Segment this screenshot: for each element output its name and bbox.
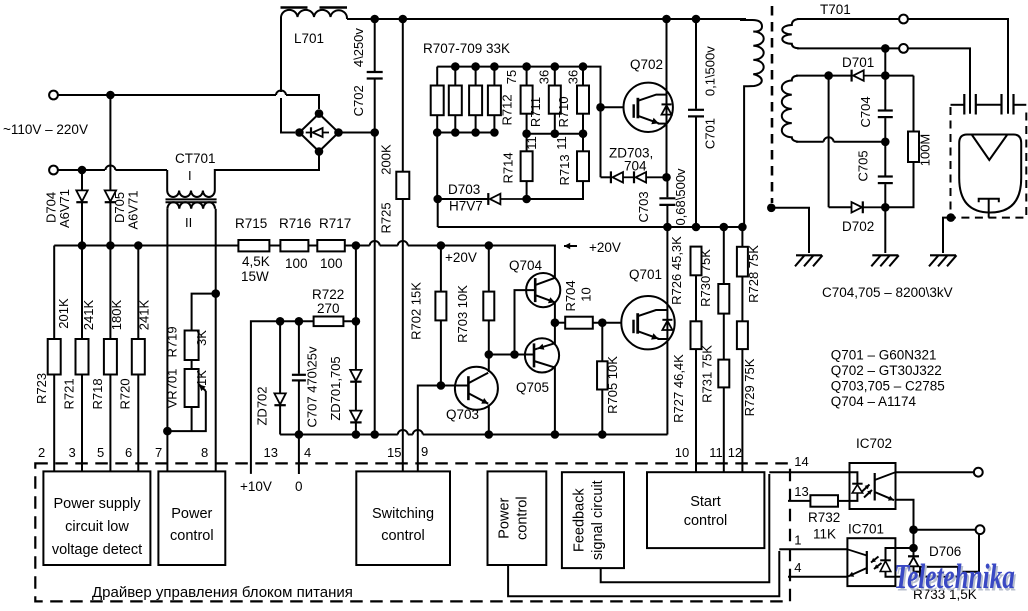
transformer CT701 secondary — [167, 202, 215, 230]
resistor R713 11 — [527, 134, 589, 199]
wire L701 left lead to bridge — [281, 98, 295, 133]
svg-text:D702: D702 — [842, 219, 874, 234]
svg-text:C701: C701 — [703, 118, 718, 149]
svg-text:Q701: Q701 — [629, 267, 662, 282]
svg-text:3K: 3K — [194, 330, 209, 346]
diode D704 — [44, 170, 88, 246]
svg-text:14: 14 — [794, 454, 808, 469]
svg-text:R725: R725 — [379, 202, 394, 233]
svg-text:Драйвер управления блоком пита: Драйвер управления блоком питания — [92, 584, 353, 601]
resistor R702 15K — [409, 246, 447, 386]
junction R702 bottom — [437, 381, 446, 390]
junction R730 top — [720, 223, 729, 232]
junction CRT ground corner — [947, 213, 956, 222]
svg-text:0,1\500v: 0,1\500v — [703, 46, 718, 96]
svg-text:R717: R717 — [319, 216, 351, 231]
wire CT701 sec right to pin 8 — [215, 209, 217, 472]
wire Q702 gate — [601, 106, 635, 108]
wire to terminal 2 — [914, 529, 976, 531]
svg-text:R712: R712 — [500, 94, 515, 125]
wire R725 to pin 15 — [402, 199, 404, 471]
svg-text:R730 75K: R730 75K — [698, 249, 713, 307]
capacitor C707 470\25v — [292, 321, 320, 434]
resistor R720 241K — [118, 246, 152, 472]
wire D702 column — [828, 76, 830, 208]
svg-text:100M: 100M — [918, 134, 933, 167]
junction R728 top — [738, 223, 747, 232]
resistor R718 180K — [90, 246, 124, 472]
capacitor C705 — [856, 142, 893, 208]
svg-text:R704: R704 — [563, 280, 578, 311]
transformer T701 core — [771, 6, 774, 203]
label Q704 type — [831, 394, 917, 409]
pin 5 — [97, 445, 104, 460]
resistor R717 100 — [317, 216, 351, 271]
svg-text:circuit low: circuit low — [65, 519, 129, 535]
resistor R711 36 — [528, 67, 561, 134]
svg-text:13: 13 — [264, 445, 278, 460]
wire pin4 line — [788, 576, 847, 578]
junction R703 bottom — [485, 350, 494, 359]
wire Q701 collector — [666, 227, 668, 310]
CRT bulb — [959, 135, 1021, 213]
svg-text:Q701 – G60N321: Q701 – G60N321 — [831, 348, 937, 363]
junction R714 bottom — [522, 195, 531, 204]
label Q702 type — [831, 363, 942, 378]
svg-text:I: I — [188, 168, 192, 183]
wire base node — [489, 354, 534, 356]
resistor R721 241K — [62, 246, 96, 472]
svg-text:Power: Power — [171, 506, 212, 522]
junction on top bus — [106, 91, 115, 100]
label R707-709 33K — [423, 41, 510, 56]
junction out node — [909, 525, 918, 534]
svg-text:10: 10 — [675, 445, 689, 460]
pin 10 — [675, 445, 689, 460]
resistor R707 — [431, 67, 444, 133]
capacitor anode cap left — [951, 94, 1027, 115]
junction C702 top — [370, 15, 379, 24]
svg-text:C705: C705 — [856, 150, 871, 181]
diode D702 — [829, 201, 886, 234]
svg-text:Q703: Q703 — [446, 407, 479, 422]
resistor R723 201K — [34, 246, 71, 472]
svg-text:R705 10K: R705 10K — [605, 356, 620, 414]
transistor Q702 IGBT — [624, 57, 673, 132]
svg-text:Feedback: Feedback — [572, 488, 588, 552]
junction D704 tap — [78, 166, 87, 175]
transistor Q703 — [446, 355, 498, 435]
junction sec1 bottom tap — [881, 44, 890, 53]
svg-text:R722: R722 — [312, 287, 344, 302]
junction bridge left — [295, 128, 304, 137]
svg-text:R702 15K: R702 15K — [409, 282, 424, 340]
ground core — [795, 255, 823, 266]
resistor R733 1,5K — [913, 534, 979, 602]
svg-text:Q702: Q702 — [630, 57, 663, 72]
wire Q704 base column — [515, 290, 535, 354]
svg-text:R719: R719 — [164, 326, 179, 357]
svg-text:VR701: VR701 — [164, 369, 179, 409]
svg-text:R716: R716 — [279, 216, 311, 231]
potentiometer VR701 1K — [164, 360, 209, 431]
diode D701 — [842, 55, 885, 82]
wire network bottom bus — [437, 132, 494, 134]
svg-text:signal circuit: signal circuit — [590, 480, 606, 560]
svg-text:0,68\500v: 0,68\500v — [673, 168, 688, 226]
wire network mid bus — [527, 133, 583, 135]
zener ZD703,704 — [601, 146, 667, 184]
junction gate node — [596, 103, 605, 112]
svg-text:A6V71: A6V71 — [57, 189, 72, 228]
svg-text:T701: T701 — [820, 2, 851, 17]
junction VR701 to pin7 line — [163, 427, 172, 436]
transistor Q705 — [516, 323, 559, 435]
capacitor C702 — [351, 19, 383, 133]
diode D703 H7V7 — [438, 182, 527, 214]
block power supply low voltage detect — [43, 471, 150, 565]
svg-text:75: 75 — [504, 70, 519, 84]
svg-text:36: 36 — [566, 70, 581, 84]
svg-text:R707-709 33K: R707-709 33K — [423, 41, 510, 56]
optocoupler IC702 — [850, 436, 896, 509]
svg-text:Power: Power — [497, 497, 513, 538]
pin 4 ic — [794, 560, 801, 575]
svg-text:7: 7 — [155, 445, 162, 460]
junction bridge right — [334, 128, 343, 137]
zener ZD702 — [255, 321, 286, 434]
svg-text:10: 10 — [578, 287, 593, 301]
transformer T701 primary — [740, 2, 851, 227]
svg-text:6: 6 — [125, 445, 132, 460]
wire pin13 line — [788, 500, 810, 502]
svg-text:IC701: IC701 — [848, 522, 884, 537]
svg-text:+20V: +20V — [445, 250, 477, 265]
wire 33K group to D703 — [436, 133, 438, 200]
resistor R729 75K — [737, 321, 757, 472]
svg-text:Q704: Q704 — [509, 258, 543, 273]
wire AC line 2 — [58, 166, 167, 171]
wire HT lead to anode — [797, 19, 1008, 114]
junction C703 bottom — [663, 223, 672, 232]
label +20V arrow — [564, 240, 621, 255]
node output terminal low — [976, 525, 985, 534]
transistor Q704 — [509, 258, 560, 323]
junction CT701 sec right tap — [211, 289, 220, 298]
junction Q702 collector top — [662, 15, 671, 24]
resistor R715 4,5K 15W — [235, 216, 270, 284]
svg-text:IC702: IC702 — [856, 436, 892, 451]
svg-text:2: 2 — [38, 445, 45, 460]
diode D706 — [908, 544, 961, 572]
svg-text:+20V: +20V — [589, 240, 621, 255]
capacitor C704 — [858, 48, 893, 141]
junction base node — [510, 350, 519, 359]
svg-text:3: 3 — [69, 445, 76, 460]
wire pin1 line — [779, 548, 847, 550]
svg-text:R715: R715 — [235, 216, 267, 231]
junction R705 bottom — [598, 430, 607, 439]
svg-text:4,5K: 4,5K — [242, 254, 270, 269]
node output terminal top — [974, 468, 983, 477]
bridge rectifier — [299, 114, 338, 152]
junction C707 top — [295, 317, 304, 326]
wire bridge return column — [374, 133, 376, 435]
pin 3 — [69, 445, 76, 460]
svg-text:241K: 241K — [137, 299, 152, 330]
wire +10V node — [251, 321, 356, 474]
junction D702 cathode — [881, 203, 890, 212]
ground C705 — [871, 255, 899, 266]
junction R718 top — [106, 241, 115, 250]
junction R725 top — [399, 15, 408, 24]
resistor R728 75K — [737, 227, 761, 321]
resistor R712 75 — [500, 67, 533, 134]
pin 12 — [728, 445, 742, 460]
junction Q703 emitter — [485, 430, 494, 439]
svg-text:A6V71: A6V71 — [125, 190, 140, 229]
wire pin 4 lead — [298, 435, 300, 475]
svg-text:15: 15 — [387, 445, 401, 460]
junction C702 bottom — [370, 128, 379, 137]
junction ZD702 top — [276, 317, 285, 326]
wire IC702 out top — [896, 471, 975, 473]
wire network top bus — [437, 67, 600, 178]
pin 8 — [201, 445, 208, 460]
svg-text:C704,705 – 8200\3kV: C704,705 – 8200\3kV — [822, 285, 953, 300]
junction D703 node — [433, 195, 442, 204]
svg-text:1: 1 — [794, 533, 801, 548]
svg-text:D703: D703 — [448, 182, 480, 197]
label Q701 type — [831, 348, 937, 363]
svg-text:R703 10K: R703 10K — [455, 285, 470, 343]
svg-text:C704: C704 — [858, 96, 873, 127]
resistor 100M — [885, 76, 932, 208]
junction bridge bottom — [315, 147, 324, 156]
svg-text:ZD701,705: ZD701,705 — [328, 356, 343, 420]
resistor R722 270 — [312, 287, 344, 326]
label driver title — [92, 584, 353, 601]
junction D701 anode tap — [824, 71, 833, 80]
junction IC701 top pin — [909, 544, 918, 553]
svg-text:H7V7: H7V7 — [449, 199, 483, 214]
wire D701 out to 100M — [885, 75, 913, 77]
pin 4 — [304, 445, 311, 460]
junction R704 left — [551, 318, 560, 327]
svg-text:Start: Start — [690, 494, 721, 510]
resistor R716 100 — [279, 216, 311, 271]
svg-text:R732: R732 — [808, 510, 840, 525]
svg-text:36: 36 — [537, 70, 552, 84]
svg-text:control: control — [170, 528, 214, 544]
wire Q702 emitter — [666, 124, 668, 178]
svg-text:C707 470\25v: C707 470\25v — [305, 346, 320, 427]
resistor R725 200K — [379, 19, 410, 234]
svg-text:control: control — [515, 496, 531, 540]
svg-text:R726 45,3K: R726 45,3K — [669, 236, 684, 305]
resistor R731 75K — [700, 345, 730, 472]
wire top HT line — [347, 18, 746, 20]
svg-text:C702: C702 — [351, 85, 366, 116]
svg-text:1K: 1K — [194, 370, 209, 386]
zener column ZD701,705 — [328, 246, 362, 435]
wire secondary tap lead — [797, 48, 970, 113]
svg-text:CT701: CT701 — [175, 151, 216, 166]
svg-text:11: 11 — [554, 136, 569, 150]
svg-text:704: 704 — [624, 159, 647, 174]
capacitor C703 0,68\500v — [636, 168, 688, 227]
block start control — [647, 472, 764, 548]
transistor Q701 IGBT — [621, 267, 674, 349]
optocoupler IC701 — [847, 522, 895, 587]
svg-text:180K: 180K — [109, 299, 124, 330]
svg-text:R713: R713 — [557, 154, 572, 185]
node AC input terminal 1 — [49, 91, 58, 100]
pin 11 — [709, 445, 723, 460]
svg-text:11: 11 — [709, 445, 723, 460]
wire power control 2 to 1 — [508, 551, 779, 596]
junction C707 bottom — [295, 430, 304, 439]
svg-text:241K: 241K — [81, 299, 96, 330]
svg-text:11: 11 — [524, 136, 539, 150]
block switching control — [356, 471, 450, 565]
junction bridge return bottom — [370, 430, 379, 439]
svg-text:200K: 200K — [379, 144, 394, 175]
wire IC702 out low — [896, 500, 914, 530]
resistor R705 10K — [597, 323, 620, 435]
svg-text:II: II — [185, 215, 192, 230]
resistor R719 3K — [164, 294, 215, 360]
wire node to IC701 — [895, 530, 913, 548]
resistor R727 46,4K — [671, 321, 702, 472]
junction ZD701 bottom — [352, 430, 361, 439]
wire IC701 bottom pin — [895, 576, 905, 578]
svg-text:201K: 201K — [56, 298, 71, 329]
svg-text:ZD702: ZD702 — [255, 386, 270, 425]
capacitor anode cap right — [1002, 94, 1014, 115]
svg-text:R714: R714 — [500, 152, 515, 183]
label C704,705 value — [822, 285, 953, 300]
label +20V rail A — [445, 250, 477, 265]
wire Q703 base — [418, 386, 469, 472]
node terminal HT top — [899, 15, 908, 24]
wire D701 anode line — [796, 75, 851, 77]
svg-text:4: 4 — [304, 445, 311, 460]
block power control 1 — [158, 471, 225, 565]
junction ZD701 rail tap — [352, 241, 361, 250]
svg-text:Q705: Q705 — [516, 380, 549, 395]
svg-text:R731 75K: R731 75K — [700, 345, 715, 403]
wire pin14 line — [769, 471, 849, 473]
resistor R709b — [488, 67, 501, 133]
svg-text:Switching: Switching — [372, 506, 434, 522]
junction C701 bottom — [692, 223, 701, 232]
wire rail A +20V — [54, 241, 555, 278]
pin 13 ic — [794, 484, 808, 499]
svg-text:12: 12 — [728, 445, 742, 460]
svg-text:R723: R723 — [34, 373, 49, 404]
junction ZD701 node — [352, 317, 361, 326]
resistor R703 10K — [455, 246, 494, 355]
block power control 2 — [488, 471, 547, 565]
svg-text:270: 270 — [317, 301, 340, 316]
pin 14 — [794, 454, 808, 469]
CRT shield dashed box — [951, 107, 1027, 218]
svg-text:11K: 11K — [813, 527, 836, 542]
junction C704 C705 mid — [881, 138, 890, 147]
pin 7 — [155, 445, 162, 460]
ground CRT — [929, 255, 957, 266]
junction R703 top — [485, 241, 494, 250]
svg-text:~110V – 220V: ~110V – 220V — [3, 122, 88, 137]
resistor R704 10 — [555, 280, 634, 328]
resistor R709 — [469, 67, 482, 133]
transformer CT701 core — [166, 199, 217, 202]
svg-text:control: control — [381, 528, 425, 544]
svg-text:C703: C703 — [636, 191, 651, 222]
svg-text:9: 9 — [421, 444, 428, 459]
wire Q701 emitter — [666, 339, 668, 434]
svg-text:Q702 – GT30J322: Q702 – GT30J322 — [831, 363, 942, 378]
label Q703 type — [831, 379, 945, 394]
pin 13 — [264, 445, 278, 460]
svg-text:R710: R710 — [556, 96, 571, 127]
junction bridge top — [315, 109, 324, 118]
resistor R710 36 — [556, 67, 589, 134]
wire bridge right to C702 column — [339, 132, 375, 134]
junction C701 top — [692, 15, 701, 24]
wire rail B — [438, 226, 744, 228]
wire common return — [280, 430, 667, 435]
svg-text:100: 100 — [285, 256, 308, 271]
svg-text:D701: D701 — [842, 55, 874, 70]
inductor L701 — [281, 8, 348, 93]
svg-text:+10V: +10V — [240, 479, 272, 494]
resistor R730 75K — [698, 227, 729, 360]
junction R721 top — [78, 241, 87, 250]
svg-text:L701: L701 — [294, 31, 324, 46]
svg-text:R729 75K: R729 75K — [742, 358, 757, 416]
svg-text:4\250v: 4\250v — [351, 28, 366, 68]
wire C705 to ground — [884, 207, 886, 253]
svg-text:R711: R711 — [528, 97, 543, 127]
junction mid bus — [522, 129, 587, 138]
watermark Teletehnika — [894, 557, 1017, 599]
transformer T701 secondary 1 — [782, 19, 799, 48]
junction network dots — [433, 62, 587, 137]
wire CT701 sec left to pin 7 — [166, 209, 168, 472]
svg-text:R721: R721 — [62, 378, 77, 409]
resistor R714 11 — [500, 134, 539, 199]
svg-text:R720: R720 — [118, 378, 133, 409]
pin 1 ic — [794, 533, 801, 548]
transformer CT701 primary — [167, 151, 319, 197]
node terminal HT low — [899, 44, 908, 53]
CRT cathode electrode — [979, 199, 999, 218]
svg-text:Power supply: Power supply — [53, 496, 141, 512]
wire sec2 bottom — [796, 137, 885, 142]
label +10V — [240, 479, 272, 494]
resistor R732 11K — [808, 495, 850, 541]
svg-text:0: 0 — [295, 479, 303, 494]
svg-text:8: 8 — [201, 445, 208, 460]
pin 2 — [38, 445, 45, 460]
svg-text:voltage detect: voltage detect — [52, 542, 142, 558]
wire Q702 collector — [666, 19, 668, 95]
label 0 volt — [295, 479, 303, 494]
junction R704 right — [598, 318, 607, 327]
capacitor C701 0,1\500v — [688, 19, 718, 227]
